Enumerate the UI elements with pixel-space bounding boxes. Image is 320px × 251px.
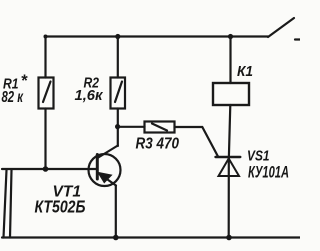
svg-text:КТ502Б: КТ502Б bbox=[35, 197, 86, 217]
resistor R2 bbox=[111, 78, 126, 109]
label R2 value 1,6к bbox=[75, 76, 104, 105]
wire: K1 bottom lead through VS1 bbox=[229, 105, 231, 160]
switch SA (top right blade) bbox=[268, 18, 294, 37]
wire: R3 left lead bbox=[118, 126, 145, 128]
svg-text:*: * bbox=[21, 72, 29, 90]
wire: R1 top lead bbox=[44, 37, 46, 78]
wire: R3 right lead to VS1 gate bbox=[175, 127, 219, 157]
wire: left terminal double line (outer) bbox=[4, 170, 7, 238]
node: emitter / bottom rail junction bbox=[113, 235, 119, 241]
resistor R1 bbox=[39, 78, 54, 109]
wire: left terminal double line (inner) bbox=[10, 170, 12, 238]
svg-text:82 к: 82 к bbox=[2, 89, 24, 106]
wire: VS1 anode lead to bottom rail bbox=[228, 160, 230, 238]
wire: K1 top lead bbox=[229, 37, 231, 84]
resistor R3 bbox=[145, 122, 175, 133]
node: VS1 / bottom rail junction bbox=[226, 235, 232, 241]
label R1* value 82к bbox=[2, 72, 29, 106]
wire: R2 bottom lead down to R3 node and collector bbox=[117, 109, 119, 147]
node: R1 / base junction bbox=[43, 166, 49, 172]
svg-text:К1: К1 bbox=[237, 63, 253, 80]
node: top rail / R2 branch junction bbox=[115, 34, 120, 39]
wire: VT1 emitter lead to bottom rail bbox=[115, 186, 117, 238]
label К1 bbox=[237, 63, 253, 80]
wire: bottom rail bbox=[2, 236, 300, 238]
node: top rail left corner bbox=[44, 35, 48, 39]
wire: switch fixed contact stub at right edge bbox=[295, 38, 300, 40]
svg-text:R3 470: R3 470 bbox=[136, 136, 180, 153]
transistor VT1 bbox=[89, 146, 121, 187]
label R3 value 470 bbox=[136, 136, 180, 153]
relay K1 coil bbox=[213, 83, 249, 105]
wire: R2 top lead bbox=[117, 37, 119, 78]
thyristor VS1 bbox=[216, 157, 241, 176]
label VT1 type КТ502Б bbox=[35, 184, 86, 217]
wire: R1 bottom lead bbox=[44, 109, 46, 170]
wire: VT1 base wire from left edge bbox=[2, 168, 96, 170]
svg-text:1,6к: 1,6к bbox=[75, 88, 104, 104]
wire: top supply rail bbox=[45, 35, 268, 37]
label VS1 type КУ101А bbox=[247, 148, 289, 182]
node: R2 / R3 / collector junction bbox=[115, 124, 120, 129]
svg-text:КУ101А: КУ101А bbox=[248, 163, 289, 182]
node: top rail / K1 branch junction bbox=[228, 34, 233, 39]
